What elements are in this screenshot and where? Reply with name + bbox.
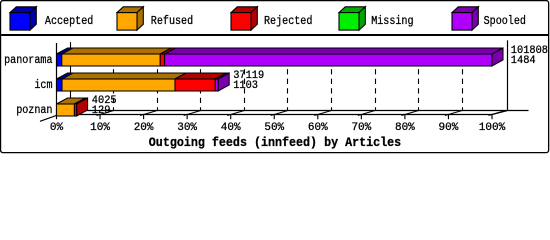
bar panorama 3d side face	[492, 48, 503, 66]
value labels	[92, 45, 548, 117]
svg-text:100%: 100%	[479, 122, 506, 134]
svg-text:Missing: Missing	[371, 14, 413, 28]
svg-text:icm: icm	[34, 78, 52, 92]
svg-text:panorama: panorama	[4, 53, 52, 67]
svg-text:30%: 30%	[177, 122, 197, 134]
svg-text:0%: 0%	[50, 122, 64, 134]
svg-text:50%: 50%	[264, 122, 284, 134]
svg-text:80%: 80%	[395, 122, 415, 134]
bar icm 3d side face	[218, 73, 229, 91]
svg-text:1484: 1484	[511, 55, 536, 67]
svg-text:70%: 70%	[351, 122, 371, 134]
svg-text:Accepted: Accepted	[45, 14, 93, 28]
outer border frame	[1, 1, 549, 153]
front x-axis baseline	[57, 114, 493, 116]
svg-text:20%: 20%	[134, 122, 154, 134]
svg-text:10%: 10%	[90, 122, 110, 134]
right 100% back axis	[507, 40, 509, 110]
bar poznan 3d side face	[77, 98, 88, 116]
bar panorama front face	[57, 54, 493, 66]
svg-text:129: 129	[92, 105, 111, 117]
legend cube Accepted	[10, 7, 36, 30]
back x-axis baseline	[70, 110, 528, 112]
svg-text:Outgoing feeds (innfeed) by Ar: Outgoing feeds (innfeed) by Articles	[149, 136, 401, 150]
x-axis percent labels	[50, 122, 506, 134]
bar panorama 3d top face	[57, 48, 504, 54]
svg-text:90%: 90%	[439, 122, 459, 134]
bar icm 3d top face	[57, 73, 230, 79]
bar poznan 3d top face	[57, 98, 88, 104]
svg-text:60%: 60%	[308, 122, 328, 134]
legend cube Rejected	[231, 7, 257, 30]
bar poznan front face	[57, 104, 77, 116]
legend cube Missing	[339, 7, 365, 30]
svg-text:40%: 40%	[221, 122, 241, 134]
category labels	[4, 53, 52, 117]
zero back gridline	[70, 42, 72, 111]
axis ticks	[40, 111, 506, 122]
dashed gridlines	[114, 50, 463, 111]
bar icm front face	[57, 79, 219, 91]
svg-text:1103: 1103	[233, 80, 258, 92]
svg-text:Spooled: Spooled	[484, 14, 526, 28]
left y-axis	[56, 43, 58, 115]
axis corner diagonal	[492, 111, 508, 115]
svg-text:Rejected: Rejected	[264, 14, 312, 28]
legend cube Refused	[117, 7, 143, 30]
svg-text:poznan: poznan	[16, 103, 52, 117]
svg-text:Refused: Refused	[151, 14, 193, 28]
legend cube Spooled	[452, 7, 478, 30]
legend separator line	[1, 34, 548, 36]
